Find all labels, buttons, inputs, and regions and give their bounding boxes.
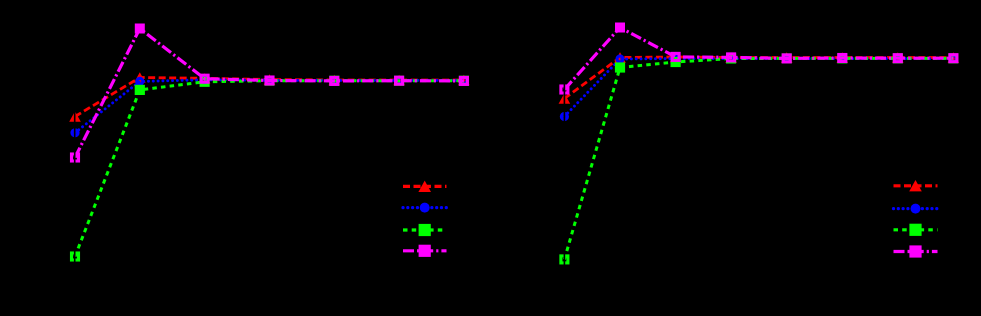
blue dotted series marker p5 (left chart) (396, 77, 402, 83)
red dashed series marker p6 (left chart) (458, 75, 470, 85)
DE legend entry marker (419, 224, 431, 236)
green dashed series marker p5 (right chart) (839, 55, 846, 62)
magenta dash-dot series line (right chart) (564, 28, 953, 90)
magenta dash-dot series marker p3 (left chart) (266, 77, 273, 84)
GA legend entry marker (909, 180, 922, 191)
green dashed series marker p7 (right chart) (950, 55, 957, 62)
magenta dash-dot series marker p1 (left chart) (135, 24, 145, 34)
blue dotted series marker p3 (right chart) (728, 56, 734, 62)
red dashed series line (right chart) (564, 57, 953, 99)
magenta dash-dot series marker p1 (right chart) (615, 23, 625, 33)
blue dotted series marker p2 (left chart) (202, 77, 208, 83)
green dashed series marker p6 (right chart) (894, 55, 901, 62)
green dashed series marker p3 (left chart) (266, 77, 273, 84)
red dashed series marker p7 (right chart) (948, 52, 960, 62)
green dashed series marker p5 (left chart) (396, 77, 403, 84)
blue dotted series marker p4 (left chart) (331, 77, 337, 83)
blue dotted series marker p6 (right chart) (895, 56, 901, 62)
red dashed series marker p0 (right chart) (559, 93, 571, 103)
magenta dash-dot series line (left chart) (75, 29, 464, 158)
green dashed series marker p0 (left chart) (72, 253, 79, 260)
red dashed series marker p3 (right chart) (725, 52, 737, 62)
blue dotted series marker p1 (left chart) (137, 78, 143, 84)
magenta dash-dot series marker p7 (right chart) (950, 55, 957, 62)
red dashed series marker p3 (left chart) (264, 74, 276, 84)
blue dotted series marker p6 (left chart) (461, 77, 467, 83)
green dashed series line (right chart) (564, 58, 953, 259)
magenta dash-dot series marker p2 (right chart) (672, 53, 679, 60)
ABC legend entry marker (909, 245, 921, 257)
DE legend entry sample line (403, 228, 447, 231)
red dashed series marker p2 (right chart) (670, 52, 682, 62)
green dashed series marker p1 (right chart) (615, 62, 625, 72)
PSO legend entry sample line (894, 207, 938, 210)
blue dotted series marker p1 (right chart) (617, 56, 623, 62)
green dashed series marker p6 (left chart) (460, 77, 467, 84)
blue dotted series marker p0 (right chart) (561, 114, 567, 120)
red dashed series marker p6 (right chart) (892, 52, 904, 62)
GA legend entry sample line (894, 184, 938, 187)
red dashed series marker p5 (right chart) (837, 52, 849, 62)
red dashed series marker p5 (left chart) (393, 75, 405, 85)
PSO legend entry sample line (403, 206, 447, 209)
blue dotted series line (left chart) (75, 80, 464, 133)
right chart y-axis spine (black, over markers) (564, 20, 566, 270)
green dashed series marker p1 (left chart) (135, 85, 145, 95)
green dashed series marker p0 (right chart) (561, 256, 568, 263)
magenta dash-dot series marker p6 (left chart) (460, 77, 467, 84)
ABC legend entry marker (419, 245, 431, 257)
red dashed series marker p2 (left chart) (199, 73, 211, 83)
magenta dash-dot series marker p0 (left chart) (72, 154, 79, 161)
blue dotted series marker p2 (right chart) (673, 56, 679, 62)
red dashed series marker p1 (right chart) (614, 52, 626, 62)
green dashed series marker p3 (right chart) (728, 55, 735, 62)
magenta dash-dot series marker p5 (left chart) (396, 77, 403, 84)
DE legend entry sample line (894, 228, 938, 231)
magenta dash-dot series marker p3 (right chart) (728, 54, 735, 61)
magenta dash-dot series marker p4 (left chart) (331, 77, 338, 84)
green dashed series marker p2 (left chart) (201, 78, 208, 85)
GA legend entry marker (418, 181, 431, 192)
blue dotted series marker p7 (right chart) (950, 56, 956, 62)
blue dotted series marker p4 (right chart) (784, 56, 790, 62)
magenta dash-dot series marker p6 (right chart) (894, 55, 901, 62)
blue dotted series line (right chart) (564, 59, 953, 117)
PSO legend entry marker (420, 203, 430, 213)
blue dotted series marker p0 (left chart) (72, 130, 78, 136)
GA legend entry sample line (403, 185, 447, 188)
magenta dash-dot series marker p5 (right chart) (839, 55, 846, 62)
green dashed series marker p4 (right chart) (783, 55, 790, 62)
magenta dash-dot series marker p0 (right chart) (561, 86, 568, 93)
green dashed series marker p4 (left chart) (331, 77, 338, 84)
magenta dash-dot series marker p4 (right chart) (783, 55, 790, 62)
magenta dash-dot series marker p2 (left chart) (201, 75, 208, 82)
left chart y-axis spine (black, over markers) (74, 20, 76, 270)
DE legend entry marker (909, 224, 921, 236)
blue dotted series marker p5 (right chart) (839, 56, 845, 62)
ABC legend entry sample line (403, 249, 447, 252)
red dashed series line (left chart) (75, 78, 464, 117)
green dashed series marker p2 (right chart) (671, 57, 681, 67)
red dashed series marker p0 (left chart) (69, 111, 81, 121)
red dashed series marker p4 (right chart) (781, 52, 793, 62)
ABC legend entry sample line (894, 250, 938, 253)
red dashed series marker p1 (left chart) (134, 72, 146, 82)
red dashed series marker p4 (left chart) (329, 75, 341, 85)
blue dotted series marker p3 (left chart) (267, 77, 273, 83)
green dashed series line (left chart) (75, 81, 464, 257)
PSO legend entry marker (911, 204, 921, 214)
